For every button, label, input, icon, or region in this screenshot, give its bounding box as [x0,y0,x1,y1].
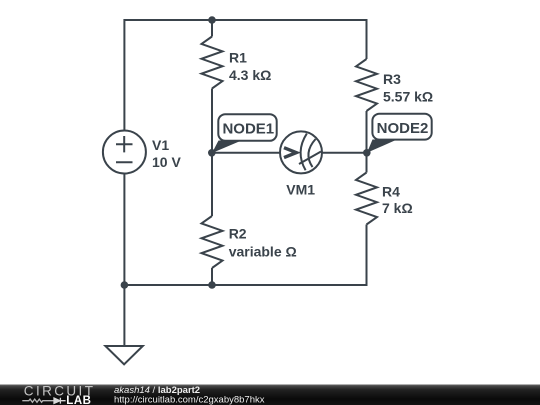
wire top rail [124,19,366,21]
wire right rail below R4 [366,225,368,287]
resistor R1 [202,37,223,89]
svg-text:R2: R2 [229,225,247,241]
svg-text:NODE2: NODE2 [377,120,429,137]
V1 plus sign [116,136,133,152]
junction dot node2 [363,149,371,157]
svg-text:LAB: LAB [66,395,91,405]
node flag NODE2 [367,114,432,153]
svg-text:NODE1: NODE1 [222,121,274,138]
junction dot top [208,16,216,24]
resistor R2 [202,216,223,268]
svg-text:http://circuitlab.com/c2gxaby8: http://circuitlab.com/c2gxaby8b7hkx [114,394,265,405]
VM1 meter arc left [301,134,307,171]
VM1 input chevron [284,148,296,158]
svg-text:R1: R1 [229,49,247,65]
resistor R3 [356,59,377,111]
wire bottom rail [124,284,366,286]
resistor R4 [356,173,377,225]
CircuitLab logo diode symbol [54,398,66,404]
wire node1 to voltmeter [212,152,280,154]
VM1 needle [299,152,321,165]
wire left rail upper [123,19,125,131]
wire right rail between R3 and R4 [366,111,368,173]
svg-text:5.57 kΩ: 5.57 kΩ [383,88,433,104]
CircuitLab logo wire with resistor zigzag [22,399,54,402]
wire right rail upper lead [366,19,368,59]
junction dot bottom left [121,281,129,289]
junction dot bottom middle [208,281,216,289]
svg-text:4.3 kΩ: 4.3 kΩ [229,67,271,83]
wire middle column upper lead [211,20,213,37]
wire middle column below R2 [211,268,213,285]
VM1 meter arc right [308,139,315,167]
wire voltmeter to node2 [322,152,367,154]
svg-text:7 kΩ: 7 kΩ [382,200,413,216]
svg-text:VM1: VM1 [286,182,315,198]
wire left rail lower [123,174,125,347]
voltmeter VM1 circle [280,131,322,173]
V1 minus sign [116,161,133,163]
wire middle column between R1 and R2 [211,89,213,217]
svg-text:V1: V1 [152,137,169,153]
node flag NODE1 [212,114,277,153]
footer bar [0,384,540,405]
svg-text:R3: R3 [383,71,401,87]
svg-text:R4: R4 [382,184,400,200]
svg-text:10 V: 10 V [152,154,181,170]
ground symbol [105,346,142,364]
svg-text:variable Ω: variable Ω [229,244,297,260]
junction dot node1 [208,149,216,157]
voltage source V1 circle [103,131,146,174]
